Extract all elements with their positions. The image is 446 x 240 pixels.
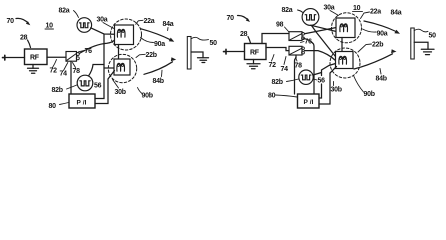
- lower mixer dashed circle 22b: [108, 54, 136, 82]
- glyph upper right: [340, 24, 348, 32]
- wire switch to upper mixer: [79, 40, 114, 53]
- svg-text:72: 72: [50, 68, 58, 75]
- wire osc82a down to lower mixer right: [312, 26, 336, 57]
- svg-text:90b: 90b: [364, 91, 375, 98]
- wire switch76 to lower mixer: [305, 51, 336, 61]
- svg-text:80: 80: [49, 103, 57, 110]
- leader 22a right: [361, 12, 370, 19]
- svg-text:22b: 22b: [372, 42, 383, 49]
- wire switch98 to upper mixer: [305, 28, 337, 34]
- swoosh arrow 84a: [141, 29, 171, 40]
- lower mixer dashed circle right: [330, 48, 360, 78]
- leader 30b right: [333, 82, 335, 86]
- ground under RF: [32, 65, 34, 69]
- leader 84b: [161, 70, 164, 76]
- input wire stub at left edge: [3, 55, 6, 60]
- svg-text:82a: 82a: [59, 8, 70, 15]
- switch box 76 right: [289, 46, 302, 55]
- svg-text:70: 70: [7, 18, 15, 25]
- swoosh arrow 84b: [144, 62, 173, 75]
- svg-text:P /I: P /I: [304, 99, 314, 106]
- leader 22b right: [358, 44, 372, 52]
- P/I box: [69, 94, 95, 108]
- svg-text:10: 10: [46, 23, 54, 30]
- svg-text:98: 98: [276, 22, 284, 29]
- wire osc56 top bend: [89, 65, 105, 77]
- switch terminal a: [76, 53, 79, 56]
- svg-text:72: 72: [269, 62, 277, 69]
- antenna bar 50: [187, 37, 191, 70]
- wire from switch98 down to P/I: [304, 38, 315, 94]
- leader 90b: [138, 88, 143, 94]
- leader 28 right: [248, 37, 251, 44]
- ground under RF right: [253, 60, 255, 64]
- svg-text:10: 10: [353, 5, 361, 12]
- wire between mixers right: [341, 38, 343, 52]
- switch lever: [67, 54, 76, 61]
- upper mixer square right: [336, 18, 355, 38]
- svg-text:82b: 82b: [52, 87, 63, 94]
- leader 72: [53, 60, 57, 68]
- svg-text:28: 28: [20, 35, 28, 42]
- svg-text:30b: 30b: [331, 87, 342, 94]
- osc 82a output wire to mixers: [91, 28, 115, 35]
- upper mixer dashed circle right: [332, 13, 362, 43]
- switch box 98: [289, 32, 302, 41]
- leader 82a right: [298, 10, 303, 13]
- leader 78: [73, 63, 76, 68]
- leader 82a: [74, 11, 79, 18]
- glyph lower right: [339, 56, 347, 64]
- leader 30a: [103, 23, 114, 29]
- svg-text:RF: RF: [30, 55, 40, 62]
- leader 76 right: [301, 42, 305, 43]
- swoosh arrow 84b right: [354, 54, 393, 69]
- svg-text:84a: 84a: [163, 21, 174, 28]
- svg-text:90a: 90a: [154, 41, 165, 48]
- lower mixer square right: [336, 52, 354, 69]
- svg-text:90a: 90a: [377, 31, 388, 38]
- leader 30a right: [330, 11, 339, 16]
- oscillator 82a right: [302, 9, 319, 26]
- leader 98: [285, 27, 289, 32]
- switch box 76: [66, 52, 77, 62]
- wire P/I right to lower mixer right: [319, 67, 337, 105]
- RF box right: [245, 44, 267, 60]
- glyph in upper mixer: [117, 29, 125, 37]
- oscillator 82a circle: [77, 18, 92, 33]
- switch terminal b: [76, 57, 79, 60]
- ground at antenna: [198, 57, 209, 59]
- wire P/I right up to lower mixer: [95, 71, 115, 104]
- svg-text:74: 74: [60, 71, 68, 78]
- svg-text:P /I: P /I: [77, 99, 87, 106]
- wire osc82a to upper mixer: [311, 25, 337, 31]
- svg-text:28: 28: [240, 31, 248, 38]
- leader 76: [79, 51, 85, 52]
- svg-text:84b: 84b: [376, 76, 387, 83]
- squiggle leader 50 right: [414, 29, 428, 32]
- antenna bar 50 right: [411, 28, 414, 59]
- svg-text:74: 74: [281, 66, 289, 73]
- wire between mixers: [118, 45, 120, 60]
- riser RF top to switch 98: [262, 34, 289, 44]
- leader 90b right: [354, 76, 364, 93]
- svg-text:80: 80: [268, 93, 276, 100]
- svg-text:22a: 22a: [370, 9, 381, 16]
- RF box: [25, 49, 48, 65]
- stub P/I right: [319, 84, 322, 98]
- pulse glyph 56: [80, 81, 90, 86]
- arrow from 70: [16, 18, 29, 23]
- leader 74 right: [284, 57, 286, 65]
- leader 72 right: [272, 55, 275, 62]
- arrow from 70 right: [238, 15, 249, 20]
- svg-text:90b: 90b: [142, 93, 153, 100]
- wire into RF right: [226, 51, 245, 53]
- svg-text:70: 70: [227, 15, 235, 22]
- leader 80 right: [276, 95, 298, 97]
- oscillator 56 circle: [77, 75, 93, 91]
- leader 30b: [113, 80, 119, 89]
- wire from switch76 down to P/I: [295, 55, 297, 94]
- svg-text:22b: 22b: [146, 52, 157, 59]
- oscillator 56 right: [299, 70, 313, 84]
- upper mixer dashed circle 22a: [111, 19, 142, 50]
- svg-text:78: 78: [295, 63, 303, 70]
- svg-text:50: 50: [210, 40, 218, 47]
- svg-text:50: 50: [429, 33, 437, 40]
- leader 82b: [67, 85, 77, 89]
- leader 84b right: [380, 69, 381, 75]
- pulse glyph 82a: [80, 23, 90, 28]
- wire into RF from left: [5, 57, 25, 59]
- upper mixer square: [115, 25, 134, 45]
- wire antenna to ground right: [414, 42, 428, 49]
- leader 82b right: [287, 79, 299, 82]
- svg-text:30a: 30a: [97, 17, 108, 24]
- leader 22b: [136, 54, 145, 57]
- svg-text:30a: 30a: [324, 5, 335, 12]
- leader 90a right: [363, 29, 377, 32]
- lower mixer square: [114, 59, 130, 75]
- squiggle leader 50: [191, 37, 209, 40]
- wire RF to switch 76: [47, 56, 66, 58]
- wire vertical osc feed down: [95, 34, 104, 99]
- leader 28: [28, 40, 31, 48]
- svg-text:82a: 82a: [282, 7, 293, 14]
- svg-text:30b: 30b: [115, 89, 126, 96]
- svg-text:82b: 82b: [272, 79, 283, 86]
- wire osc56 to lower mixer right: [313, 73, 322, 76]
- svg-text:84b: 84b: [153, 78, 164, 85]
- svg-text:78: 78: [73, 68, 81, 75]
- svg-text:56: 56: [94, 83, 102, 90]
- wire RF right to switch 76: [266, 48, 289, 51]
- svg-text:84a: 84a: [391, 10, 402, 17]
- leader 56 right: [314, 79, 318, 80]
- ground at antenna right: [421, 48, 434, 50]
- leader 22a: [136, 20, 143, 24]
- P/I box right: [298, 94, 320, 108]
- swoosh arrow 84a right: [364, 21, 396, 32]
- svg-text:RF: RF: [250, 50, 260, 57]
- leader 90a: [141, 38, 154, 43]
- leader 78 right: [296, 58, 298, 62]
- glyph in lower mixer: [117, 63, 125, 71]
- wire antenna to ground: [191, 52, 203, 58]
- wire switch down to P/I: [70, 61, 72, 94]
- leader 80: [60, 103, 69, 105]
- leader 74: [64, 63, 68, 71]
- input wire stub at left edge (right figure): [224, 49, 227, 54]
- svg-text:22a: 22a: [144, 18, 155, 25]
